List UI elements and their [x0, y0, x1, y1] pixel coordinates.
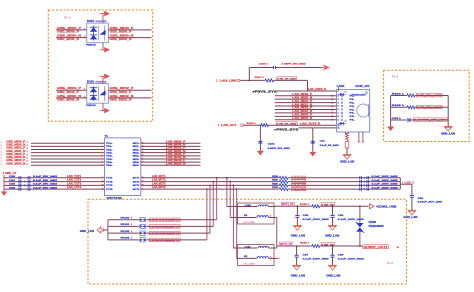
resistor R302: [272, 183, 306, 187]
svg-text:2: 2: [27, 164, 28, 166]
svg-text:1: 1: [1, 145, 2, 147]
svg-text:LAN_TCT1: LAN_TCT1: [67, 175, 82, 178]
svg-text:LAN_ACT: LAN_ACT: [221, 123, 237, 127]
svg-text:MX1+: MX1+: [133, 143, 140, 145]
common-mode choke L101: [238, 245, 275, 266]
svg-text:TCT1: TCT1: [106, 178, 114, 180]
svg-text:2: 2: [27, 154, 28, 156]
svg-text:GBE_MDI0_P: GBE_MDI0_P: [57, 26, 81, 30]
wire L101 bottom stub: [274, 258, 280, 260]
svg-text:1 75_5%_0402: 1 75_5%_0402: [292, 188, 305, 191]
svg-text:TD4+: TD4+: [106, 161, 113, 164]
wire MCT1_1B (upper branch): [274, 202, 312, 206]
svg-text:2: 2: [131, 231, 132, 233]
wire LAN_TCT3 with capacitor C102: [4, 182, 105, 187]
svg-text:PESD0603: PESD0603: [369, 226, 385, 228]
wire MCT3 branch to varistor: [209, 185, 211, 234]
capacitor C160 branch: [249, 63, 324, 82]
svg-text:MX3+: MX3+: [133, 156, 140, 158]
common-mode choke L100: [238, 203, 275, 224]
svg-text:8: 8: [102, 165, 103, 167]
svg-text:1: 1: [84, 89, 85, 91]
svg-text:0.1uF_100V_0603: 0.1uF_100V_0603: [338, 219, 365, 221]
svg-text:1: 1: [1, 155, 2, 157]
resistor R164 termination: [391, 92, 449, 97]
power arrow (C160 net): [323, 65, 330, 71]
EMI filter area (dashed box): [88, 199, 406, 284]
ESD diode array D102: [86, 81, 108, 107]
ground GND_LAN (C99): [328, 264, 337, 266]
svg-text:1: 1: [257, 216, 258, 218]
ESD protection area (dashed box): [48, 10, 152, 121]
wire LAN_MDI1_P (T1 output): [141, 146, 201, 150]
wire GBE_MDI2_P: [1, 152, 105, 157]
svg-text:D102: D102: [87, 81, 95, 84]
svg-text:IP4220CZ6: IP4220CZ6: [96, 20, 108, 23]
svg-text:GBE_MDI2_P: GBE_MDI2_P: [110, 86, 134, 90]
svg-text:2: 2: [27, 157, 28, 159]
svg-text:5: 5: [338, 106, 339, 108]
wire GBE_MDI1_N: [1, 149, 105, 154]
net GBE_CT bus: [3, 172, 18, 191]
wire MCT1 branch to choke: [226, 177, 237, 206]
termination area (dashed box): [384, 70, 470, 141]
wire R167 to LED: [274, 80, 308, 91]
resistor R158: [300, 203, 369, 208]
svg-text:+P3V3_SYS: +P3V3_SYS: [274, 127, 299, 131]
resistor R301: [272, 180, 306, 184]
svg-text:2: 2: [27, 145, 28, 147]
ground arrow (bottom): [100, 103, 111, 113]
svg-text:1 75_5%_0402: 1 75_5%_0402: [292, 180, 305, 183]
svg-text:GBE_MDI2_N: GBE_MDI2_N: [110, 100, 132, 102]
svg-text:TCT3: TCT3: [106, 185, 114, 187]
svg-text:LAN_TCT2: LAN_TCT2: [67, 179, 82, 182]
resistor R300: [272, 176, 306, 180]
wire GBE_MDI0_P (right): [108, 26, 151, 34]
svg-text:TD1+: TD1+: [106, 143, 113, 145]
svg-text:2 68PF_50V_0402: 2 68PF_50V_0402: [282, 63, 307, 66]
wire GBE_MDI1_P: [1, 146, 105, 151]
svg-text:0.01uF_2KV_1206: 0.01uF_2KV_1206: [418, 202, 444, 204]
resistor R168: [247, 122, 337, 127]
svg-text:7: 7: [338, 113, 339, 115]
off-page connector KCN01_USB: [370, 204, 397, 209]
wire choke outputs to lower branch: [274, 218, 277, 249]
ground (left rail): [387, 127, 394, 132]
svg-text:1: 1: [257, 257, 258, 259]
svg-text:1 GBE_CT: 1 GBE_CT: [3, 172, 18, 175]
capacitor C95 to ground: [295, 206, 330, 226]
wire GBE_MDI0_P (left): [56, 26, 87, 34]
TVS diode D100: [355, 206, 384, 246]
off-page connector GND_LAN: [80, 227, 108, 233]
svg-text:PL-1: PL-1: [64, 15, 71, 19]
wire LAN_MDI3_N (to RJ45): [275, 116, 337, 122]
svg-text:LAN_TCT3: LAN_TCT3: [67, 182, 82, 185]
svg-text:D100: D100: [369, 222, 377, 224]
svg-text:3: 3: [102, 149, 103, 151]
svg-text:GBE_MDI0_N: GBE_MDI0_N: [57, 34, 81, 38]
wire GBE_MDI2_N (left): [56, 94, 87, 102]
svg-text:MCT1: MCT1: [133, 178, 140, 180]
capacitor C99 to ground: [330, 245, 365, 265]
svg-text:1: 1: [1, 148, 2, 150]
svg-text:6: 6: [338, 109, 339, 111]
svg-text:1: 1: [1, 158, 2, 160]
svg-text:0.1uF_100V_0603: 0.1uF_100V_0603: [338, 259, 365, 261]
svg-text:1 BVD-RVDNABZ2PV4: 1 BVD-RVDNABZ2PV4: [150, 239, 181, 242]
svg-text:GBE_MDI2_P: GBE_MDI2_P: [57, 86, 81, 90]
svg-text:GND_LAN: GND_LAN: [441, 133, 455, 136]
svg-text:LAN_MCT1: LAN_MCT1: [152, 175, 166, 178]
capacitor C161 to ground: [258, 124, 290, 150]
svg-text:GBE_MDI0_P: GBE_MDI0_P: [110, 26, 134, 30]
svg-text:GBE_MDI2_N: GBE_MDI2_N: [57, 100, 79, 102]
svg-text:TD4-: TD4-: [106, 164, 113, 167]
svg-text:MX3-: MX3-: [133, 159, 140, 161]
svg-text:0.68PF_50V_0402: 0.68PF_50V_0402: [268, 147, 291, 150]
svg-text:GND_LAN: GND_LAN: [291, 274, 305, 277]
resistor R165 termination: [391, 105, 449, 109]
wire GBE_MDI3_N: [1, 161, 105, 166]
svg-text:PL-3: PL-3: [387, 261, 394, 265]
svg-text:R300: R300: [272, 176, 278, 178]
wire varistor bus: [107, 220, 109, 240]
svg-text:LAN_TCT4: LAN_TCT4: [67, 186, 82, 189]
wire LAN_MCT1: [141, 175, 401, 178]
svg-text:GND_LAN: GND_LAN: [325, 235, 339, 238]
svg-text:2: 2: [338, 95, 339, 97]
svg-text:GBE_MDI0_P: GBE_MDI0_P: [57, 32, 80, 34]
capacitor C16 to ground: [311, 128, 340, 152]
svg-text:2: 2: [270, 257, 271, 259]
svg-text:2: 2: [102, 146, 103, 148]
wire LAN_MCT3: [141, 182, 401, 185]
wire LAN_MDI3_P (to RJ45): [275, 113, 337, 119]
svg-text:GBE_MDI2_P: GBE_MDI2_P: [57, 92, 80, 94]
svg-text:TD1-: TD1-: [106, 146, 113, 148]
wire LAN_TCT4 with capacitor C103: [4, 186, 105, 191]
svg-text:GBE_MDI0_P: GBE_MDI0_P: [110, 32, 133, 34]
svg-text:MCT2: MCT2: [133, 181, 140, 183]
svg-text:P3-: P3-: [350, 113, 356, 115]
svg-text:IP4220CZ6: IP4220CZ6: [96, 81, 108, 84]
svg-text:LP-1.7MH: LP-1.7MH: [244, 222, 256, 224]
svg-text:2: 2: [270, 216, 271, 218]
svg-text:PL-2: PL-2: [392, 75, 399, 79]
capacitor C98: [410, 184, 443, 210]
svg-text:2: 2: [279, 258, 280, 260]
svg-text:2: 2: [131, 218, 132, 220]
svg-text:TD3-: TD3-: [106, 159, 113, 161]
wire LAN_LINK#_R: [277, 88, 337, 91]
svg-text:MX2-: MX2-: [133, 152, 140, 154]
wire MCT4 branch to varistor: [206, 188, 208, 240]
svg-text:TD3+: TD3+: [106, 156, 113, 158]
svg-text:1: 1: [1, 164, 2, 166]
svg-text:1: 1: [402, 182, 403, 184]
svg-text:1: 1: [102, 143, 103, 145]
ground GND_LAN (C97): [292, 264, 301, 266]
svg-text:2: 2: [84, 96, 85, 98]
svg-text:10: 10: [338, 125, 340, 127]
svg-text:IP4220CZ6: IP4220CZ6: [86, 104, 96, 107]
svg-text:P2-: P2-: [350, 106, 356, 108]
capacitor C81 on MCT2: [360, 179, 399, 183]
svg-text:GND_LAN: GND_LAN: [80, 230, 94, 233]
svg-text:GBE_MDI0_N: GBE_MDI0_N: [57, 39, 79, 41]
wire LAN_MDI2_P (T1 output): [141, 152, 201, 156]
svg-text:R303: R303: [272, 187, 278, 189]
node LAN_ACT: [218, 123, 261, 127]
svg-text:4: 4: [338, 101, 339, 104]
svg-text:LAN7_C: LAN7_C: [405, 181, 415, 184]
wire LAN_MDI1_N (to RJ45): [275, 102, 337, 108]
svg-text:0.1uF_50_0402: 0.1uF_50_0402: [320, 144, 340, 147]
wire GBE_MDI0_P: [1, 139, 105, 144]
wire MCT2_1B (lower branch): [277, 242, 312, 246]
svg-text:D101: D101: [87, 20, 95, 23]
svg-text:1 75_5%_0402: 1 75_5%_0402: [292, 177, 305, 180]
svg-text:LAN_MDI3_N: LAN_MDI3_N: [292, 116, 312, 120]
svg-text:GND_LAN: GND_LAN: [326, 274, 340, 277]
wire LAN_TCT2 with capacitor C101: [4, 179, 105, 184]
svg-text:RJ45_1X1: RJ45_1X1: [356, 84, 371, 88]
svg-text:R159 1: R159 1: [300, 243, 310, 245]
svg-text:1: 1: [1, 142, 2, 144]
svg-text:1: 1: [1, 161, 2, 163]
svg-text:C161: C161: [268, 144, 276, 146]
svg-text:2: 2: [27, 161, 28, 163]
wire LAN_MDI3_N (T1 output): [141, 161, 201, 165]
svg-text:1: 1: [84, 28, 85, 30]
svg-text:GBE_MDI3_N: GBE_MDI3_N: [6, 161, 25, 165]
svg-text:TCT2: TCT2: [106, 181, 114, 183]
svg-text:VR102: VR102: [120, 231, 130, 233]
ESD diode array D101: [86, 20, 108, 46]
RJ45 connector LAN1: [337, 84, 371, 132]
wire GBE_MDI0_N (right): [108, 34, 151, 42]
wire GBE_MDI0_N: [1, 142, 105, 147]
ground arrow (bottom): [100, 43, 111, 53]
svg-text:R301: R301: [272, 180, 278, 182]
svg-text:MX2+: MX2+: [133, 149, 140, 151]
svg-text:R158 1: R158 1: [300, 204, 310, 206]
wire GBE_MDI2_N (right): [108, 94, 151, 102]
svg-text:R165 1: R165 1: [392, 105, 406, 107]
svg-text:GBE_MDI0_N: GBE_MDI0_N: [110, 39, 132, 41]
wire GBE_MDI2_N: [1, 155, 105, 160]
svg-text:2: 2: [131, 224, 132, 226]
svg-text:1: 1: [1, 151, 2, 153]
resistor R159: [300, 243, 362, 248]
svg-text:1 BVD-RVDNABZ2PV4: 1 BVD-RVDNABZ2PV4: [150, 219, 181, 222]
svg-text:GND_LAN: GND_LAN: [340, 161, 354, 164]
ground (C161): [257, 151, 264, 156]
svg-text:2: 2: [27, 148, 28, 150]
wire LAN_MDI1_N (T1 output): [141, 149, 201, 153]
resistor R303: [272, 187, 306, 191]
svg-text:LAN_MCT2: LAN_MCT2: [152, 179, 166, 182]
varistor VR100: [108, 218, 217, 222]
svg-text:LAN_LINK: LAN_LINK: [220, 79, 237, 83]
ground GND_LAN (C95): [293, 225, 302, 227]
svg-text:1 BVD-RVDNABZ2PV4: 1 BVD-RVDNABZ2PV4: [150, 232, 181, 235]
svg-text:8: 8: [338, 116, 339, 118]
svg-text:LAN_MDI3_N: LAN_MDI3_N: [166, 161, 185, 165]
svg-text:MX1-: MX1-: [133, 146, 140, 148]
svg-text:P1-: P1-: [350, 99, 356, 101]
power arrow (top): [100, 11, 111, 23]
wire left rail: [390, 96, 392, 127]
svg-text:VR103: VR103: [120, 238, 130, 240]
varistor VR103: [108, 238, 207, 242]
svg-text:+P3V3_SYS: +P3V3_SYS: [252, 89, 277, 93]
svg-text:1 75_5%_0402: 1 75_5%_0402: [292, 184, 305, 187]
ground GND_LAN (right rail): [444, 126, 453, 128]
svg-text:MCT1_1B: MCT1_1B: [282, 204, 294, 206]
svg-text:1 BVD-RVDNABZ2PV4: 1 BVD-RVDNABZ2PV4: [150, 225, 181, 228]
capacitor C97 to ground: [295, 245, 330, 265]
svg-text:T1: T1: [105, 134, 109, 138]
svg-text:6: 6: [102, 158, 103, 160]
svg-text:TCT4: TCT4: [106, 188, 114, 191]
svg-text:0.1uF_100V_0402: 0.1uF_100V_0402: [372, 175, 399, 178]
wire LAN_MCT4: [141, 186, 401, 189]
wire GBE_MDI2_P (right): [108, 86, 151, 94]
svg-text:0.1uF_100V_0603: 0.1uF_100V_0603: [303, 219, 330, 221]
svg-text:0.1uF_100V_0402: 0.1uF_100V_0402: [372, 187, 399, 190]
wire MCT4 branch to choke: [236, 188, 238, 258]
svg-text:7: 7: [102, 162, 103, 164]
varistor VR101: [108, 224, 213, 228]
wire LAN_MDI0_N (to RJ45): [275, 95, 337, 101]
wire LAN_MDI2_N (T1 output): [141, 155, 201, 159]
wire right rail: [447, 96, 449, 127]
svg-text:C93 1: C93 1: [392, 118, 402, 120]
svg-text:MX4+: MX4+: [133, 161, 140, 164]
wire LAN_MDI2_N (to RJ45): [275, 109, 337, 115]
wire MCT2 branch to varistor: [212, 181, 214, 227]
svg-text:5: 5: [102, 155, 103, 157]
svg-text:IP4220CZ6: IP4220CZ6: [86, 43, 96, 46]
wire MCT1 branch to varistor: [216, 177, 218, 220]
wire LAN_MCT2: [141, 179, 401, 182]
ground GND_LAN (shield): [343, 154, 352, 156]
svg-text:P4-: P4-: [350, 119, 356, 122]
svg-text:2: 2: [27, 142, 28, 144]
svg-text:2: 2: [84, 36, 85, 38]
resistor R167: [255, 77, 297, 82]
net LAN_CT merge rail: [400, 178, 414, 189]
ground GND_LAN (C98): [407, 209, 416, 211]
svg-text:9: 9: [338, 119, 339, 121]
svg-text:R168 1: R168 1: [247, 123, 257, 125]
wire GBE_MDI3_P: [1, 158, 105, 163]
wire LAN_MDI2_P (to RJ45): [275, 106, 337, 112]
svg-text:KCN01_USB: KCN01_USB: [377, 205, 397, 208]
svg-text:GBE_MDI0_N: GBE_MDI0_N: [110, 34, 134, 38]
capacitor C83 on MCT4: [360, 187, 399, 191]
ground (GBE_CT): [1, 192, 7, 196]
svg-text:MCT4: MCT4: [133, 188, 140, 191]
wire LAN_MDI1_P (to RJ45): [275, 99, 337, 105]
RJ45 nc stubs: [358, 132, 365, 142]
capacitor C93 termination: [391, 118, 449, 122]
svg-text:0.1uF_50V_0402: 0.1uF_50V_0402: [33, 175, 58, 178]
svg-text:11: 11: [338, 128, 340, 130]
svg-text:R302: R302: [272, 183, 278, 185]
power arrow (top): [100, 74, 111, 84]
resistor R169 / ferrite below RJ45: [345, 132, 349, 155]
wire LAN_MDI0_P (T1 output): [141, 139, 201, 143]
svg-text:R164 1: R164 1: [392, 92, 406, 95]
svg-text:0.1uF_100V_0402: 0.1uF_100V_0402: [372, 179, 399, 182]
capacitor C80 on MCT1: [360, 175, 399, 179]
svg-text:0.1uF_50V_0402: 0.1uF_50V_0402: [33, 186, 58, 189]
svg-text:0.1uF_100V_0603: 0.1uF_100V_0603: [303, 259, 330, 261]
varistor VR102: [108, 231, 210, 235]
wire GBE_MDI0_N (left): [56, 34, 87, 42]
node LAN_LINK: [216, 79, 265, 83]
svg-text:0.1uF_50V_0402: 0.1uF_50V_0402: [33, 179, 58, 182]
ground GND_LAN (C96): [328, 225, 337, 227]
svg-text:GBE_MDI2_N: GBE_MDI2_N: [110, 94, 134, 98]
wire LAN_MDI3_P (T1 output): [141, 158, 201, 162]
wire LAN_MDI0_N (T1 output): [141, 142, 201, 146]
wire MCT2 branch to choke: [229, 181, 237, 218]
ground (C16): [309, 152, 316, 157]
svg-text:TD2-: TD2-: [106, 152, 113, 154]
svg-text:1: 1: [338, 91, 339, 93]
svg-text:VR100: VR100: [120, 218, 130, 220]
wire LAN_MDI0_P (to RJ45): [275, 92, 337, 98]
svg-text:MCT2_1B: MCT2_1B: [280, 244, 292, 246]
svg-text:GBE_MDI2_P: GBE_MDI2_P: [110, 92, 133, 94]
port QUSBT_OUT1: [359, 245, 399, 249]
svg-text:MX4-: MX4-: [133, 164, 140, 167]
svg-text:3: 3: [338, 99, 339, 101]
wire LAN_TCT1 with capacitor C100: [4, 175, 105, 180]
svg-text:0.1uF_100V_0402: 0.1uF_100V_0402: [372, 183, 399, 186]
svg-text:LAN_LINK#_R: LAN_LINK#_R: [308, 88, 326, 91]
svg-text:C160 1: C160 1: [259, 64, 270, 66]
svg-text:MCT3: MCT3: [133, 185, 140, 187]
svg-text:0.1uF_50V_0402: 0.1uF_50V_0402: [33, 183, 58, 186]
wire MCT3 branch to choke: [233, 185, 238, 248]
svg-text:GND_LAN: GND_LAN: [403, 216, 417, 219]
power +P3V3_SYS (act LED): [274, 127, 337, 131]
svg-text:GBE_MDI2_N: GBE_MDI2_N: [57, 94, 81, 98]
svg-text:VR101: VR101: [120, 224, 130, 226]
svg-text:R167 1: R167 1: [255, 77, 265, 79]
svg-text:LP-1.7MH: LP-1.7MH: [244, 264, 256, 266]
svg-text:LAN1: LAN1: [337, 84, 345, 88]
svg-text:2: 2: [131, 238, 132, 240]
svg-text:GND_LAN: GND_LAN: [291, 235, 305, 238]
transformer T1: [102, 134, 144, 200]
svg-text:TD2+: TD2+: [106, 149, 113, 151]
wire GBE_MDI2_P (left): [56, 86, 87, 94]
svg-text:QUSBT_OUT1: QUSBT_OUT1: [364, 246, 389, 249]
svg-text:LAN_MCT3: LAN_MCT3: [152, 182, 166, 185]
svg-text:2: 2: [27, 151, 28, 153]
capacitor C82 on MCT3: [360, 183, 399, 187]
capacitor C96 to ground: [330, 206, 365, 226]
svg-text:LAN_MCT4: LAN_MCT4: [152, 186, 166, 189]
